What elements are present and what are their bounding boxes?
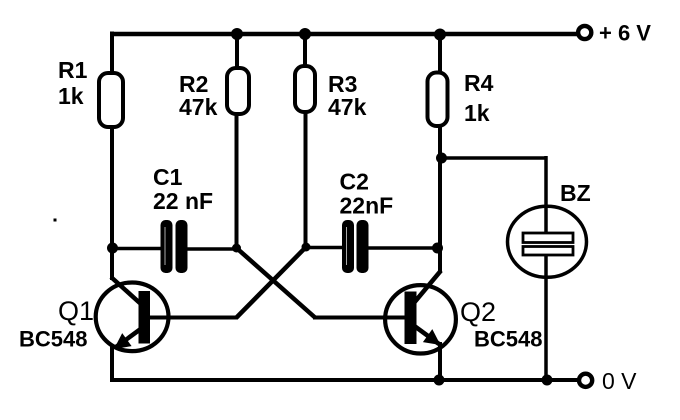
ground terminal 0V bbox=[579, 374, 592, 387]
wire BZ bottom lead bbox=[544, 255, 548, 381]
wire Q2 emitter diagonal bbox=[413, 325, 439, 344]
transistor Q1 base bar bbox=[139, 291, 151, 344]
svg-text:R1: R1 bbox=[58, 57, 88, 83]
svg-text:22nF: 22nF bbox=[340, 193, 394, 219]
wire bottom 0V rail bbox=[110, 378, 578, 382]
buzzer BZ body bbox=[508, 206, 587, 277]
svg-text:BZ: BZ bbox=[560, 180, 591, 206]
svg-text:Q1: Q1 bbox=[58, 296, 94, 326]
wire Q1 collector diagonal bbox=[111, 277, 142, 305]
wire C1 right lead bbox=[187, 247, 237, 251]
stray ink dot bbox=[54, 219, 57, 222]
resistor R1 bbox=[99, 73, 123, 127]
capacitor C2 right plate bbox=[357, 220, 369, 273]
node R4/BZ branch junction bbox=[436, 153, 447, 164]
wire BZ top vertical lead bbox=[544, 156, 548, 234]
wire top +6V rail bbox=[110, 32, 578, 37]
node R1/C1/Q1-collector junction bbox=[107, 243, 118, 254]
wire cross-coupling R3 bottom to Q1 base (diagonal) bbox=[237, 247, 307, 318]
wire Q2 emitter lead bbox=[438, 342, 442, 381]
wire R1 bottom lead bbox=[110, 126, 114, 280]
svg-text:BC548: BC548 bbox=[19, 327, 87, 352]
svg-text:47k: 47k bbox=[328, 94, 367, 120]
resistor R3 bbox=[295, 66, 315, 112]
wire C1 left lead bbox=[112, 247, 162, 251]
wire R2 top lead bbox=[235, 32, 239, 69]
resistor R4 bbox=[428, 73, 448, 127]
wire R3 bottom lead bbox=[304, 112, 308, 248]
wire R2 bottom lead bbox=[235, 114, 239, 249]
svg-text:22 nF: 22 nF bbox=[153, 188, 213, 214]
svg-text:C1: C1 bbox=[153, 164, 183, 190]
transistor Q2 base bar bbox=[405, 292, 417, 345]
capacitor C2 left plate bbox=[342, 220, 354, 273]
wire R3 top lead bbox=[303, 32, 307, 67]
wire R4 bottom / Q2 collector vertical lead bbox=[438, 126, 442, 272]
svg-text:R4: R4 bbox=[464, 70, 494, 96]
wire R1 top lead bbox=[110, 32, 114, 75]
wire Q2 collector diagonal bbox=[413, 271, 441, 305]
Q1 emitter arrowhead bbox=[114, 333, 132, 349]
svg-text:BC548: BC548 bbox=[474, 327, 542, 352]
svg-text:1k: 1k bbox=[464, 100, 490, 126]
wire R4 top lead bbox=[438, 32, 442, 74]
node C2/R4/Q2-collector junction bbox=[432, 243, 443, 254]
capacitor C2 left plate highlight bbox=[346, 227, 348, 265]
node Q2 emitter / 0V rail junction bbox=[434, 375, 445, 386]
buzzer BZ piezo plate bottom bbox=[523, 247, 573, 256]
svg-text:+ 6 V: + 6 V bbox=[599, 21, 651, 46]
Q2 emitter arrowhead bbox=[423, 329, 441, 345]
wire Q1 base lead bbox=[148, 316, 238, 320]
capacitor C1 right plate bbox=[176, 220, 188, 273]
svg-text:1k: 1k bbox=[58, 83, 84, 109]
wire cross-coupling R2 bottom to Q2 base (diagonal) bbox=[237, 248, 316, 318]
transistor Q2 body bbox=[385, 285, 456, 353]
svg-text:0 V: 0 V bbox=[602, 368, 637, 394]
resistor R2 bbox=[227, 68, 249, 114]
node BZ / 0V rail junction bbox=[542, 375, 553, 386]
wire Q2 base lead bbox=[313, 316, 406, 320]
wire Q1 emitter diagonal bbox=[116, 328, 142, 347]
buzzer BZ piezo plate top bbox=[523, 233, 573, 243]
node R2/C1/cross-wire junction bbox=[232, 244, 241, 253]
node top rail R4 junction bbox=[434, 29, 446, 41]
svg-text:C2: C2 bbox=[340, 169, 369, 195]
power terminal +6V bbox=[578, 26, 591, 39]
svg-text:47k: 47k bbox=[179, 94, 218, 120]
wire C2 left lead bbox=[306, 246, 342, 250]
node top rail R2 junction bbox=[231, 28, 243, 40]
svg-text:Q2: Q2 bbox=[460, 297, 496, 327]
node top rail R3 junction bbox=[299, 28, 311, 40]
capacitor C1 left plate highlight bbox=[164, 227, 166, 265]
wire BZ top horizontal bbox=[442, 156, 547, 160]
node R3/C2/cross-wire junction bbox=[302, 243, 311, 252]
capacitor C1 left plate bbox=[161, 220, 173, 273]
wire C2 right lead bbox=[369, 246, 439, 250]
transistor Q1 body bbox=[96, 283, 169, 352]
wire Q1 emitter lead bbox=[110, 346, 114, 381]
